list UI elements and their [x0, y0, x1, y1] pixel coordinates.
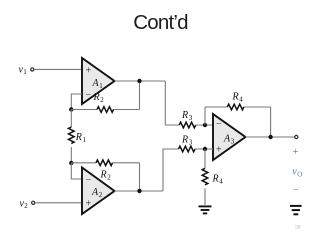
op-amp A2: [82, 168, 115, 215]
svg-text:−: −: [216, 119, 222, 130]
node v1 label: [19, 65, 28, 77]
node junction A1 output: [137, 79, 141, 83]
resistor R3 (bottom): [179, 135, 196, 152]
terminal v2: [32, 201, 35, 204]
resistor R2 (A1 feedback): [93, 92, 114, 112]
svg-text:+: +: [86, 66, 92, 77]
node junction A3 noninverting: [203, 147, 207, 151]
svg-text:R: R: [93, 92, 100, 103]
svg-text:4: 4: [239, 96, 243, 104]
svg-text:R: R: [212, 174, 219, 185]
svg-text:−: −: [86, 175, 92, 186]
wire A1 inverting stub: [71, 94, 82, 110]
svg-text:1: 1: [99, 82, 103, 90]
svg-text:3: 3: [189, 114, 193, 122]
svg-text:R: R: [232, 92, 239, 103]
svg-text:A: A: [223, 134, 231, 145]
wire A1 output: [115, 80, 166, 82]
node v2 label: [20, 199, 29, 211]
svg-text:O: O: [297, 171, 302, 179]
wire R4 feedback run: [205, 107, 271, 137]
node junction A1 feedback: [69, 107, 73, 111]
svg-text:+: +: [86, 199, 92, 210]
svg-text:+: +: [216, 145, 222, 156]
svg-text:2: 2: [24, 202, 28, 210]
terminal vO: [295, 135, 298, 138]
svg-text:2: 2: [99, 191, 103, 199]
svg-text:−: −: [86, 90, 92, 101]
wire A2 output up to R3 bottom: [163, 149, 179, 191]
wire R2 top feedback run: [71, 81, 139, 110]
svg-text:R: R: [181, 110, 188, 121]
svg-text:58: 58: [295, 225, 301, 231]
node vO label: [292, 167, 302, 179]
resistor R1: [69, 110, 87, 164]
svg-text:A: A: [92, 78, 100, 89]
svg-text:4: 4: [219, 178, 223, 186]
svg-text:3: 3: [189, 139, 193, 147]
op-amp A1: [82, 58, 115, 104]
wire A2 inverting stub: [71, 163, 82, 179]
svg-text:2: 2: [107, 174, 111, 182]
svg-text:R: R: [75, 132, 82, 143]
svg-text:R: R: [181, 135, 188, 146]
wire A3 output: [246, 136, 295, 138]
terminal v1: [31, 68, 34, 71]
wire R2 bottom feedback run: [71, 163, 139, 191]
node junction A3 inverting: [203, 123, 207, 127]
node junction A3 output: [268, 135, 272, 139]
wire v2 to A2 noninverting input: [35, 202, 82, 204]
resistor R4 (feedback): [227, 92, 244, 110]
ground (output reference): [290, 206, 302, 214]
resistor R3 (top): [179, 110, 196, 128]
svg-text:1: 1: [23, 68, 27, 76]
node junction A2 output: [137, 189, 141, 193]
svg-text:2: 2: [100, 96, 104, 104]
svg-text:3: 3: [231, 138, 235, 146]
svg-text:1: 1: [83, 136, 87, 144]
wire R3 bottom to A3 noninverting input: [195, 148, 213, 150]
op-amp A3: [213, 114, 246, 160]
resistor R2 (A2 feedback): [96, 160, 113, 182]
wire A2 output: [115, 190, 164, 192]
svg-text:Cont’d: Cont’d: [133, 11, 188, 34]
svg-text:−: −: [293, 185, 300, 196]
svg-text:A: A: [91, 187, 99, 198]
svg-text:+: +: [292, 147, 299, 158]
wire v1 to A1 noninverting input: [34, 68, 82, 70]
wire A1 output down to R3 top: [165, 81, 179, 125]
node junction A2 feedback: [69, 161, 73, 165]
wire R3 top to A3 inverting input: [196, 124, 214, 126]
resistor R4 (to ground): [202, 149, 223, 205]
svg-text:R: R: [100, 170, 107, 181]
ground (below R4): [199, 206, 212, 213]
